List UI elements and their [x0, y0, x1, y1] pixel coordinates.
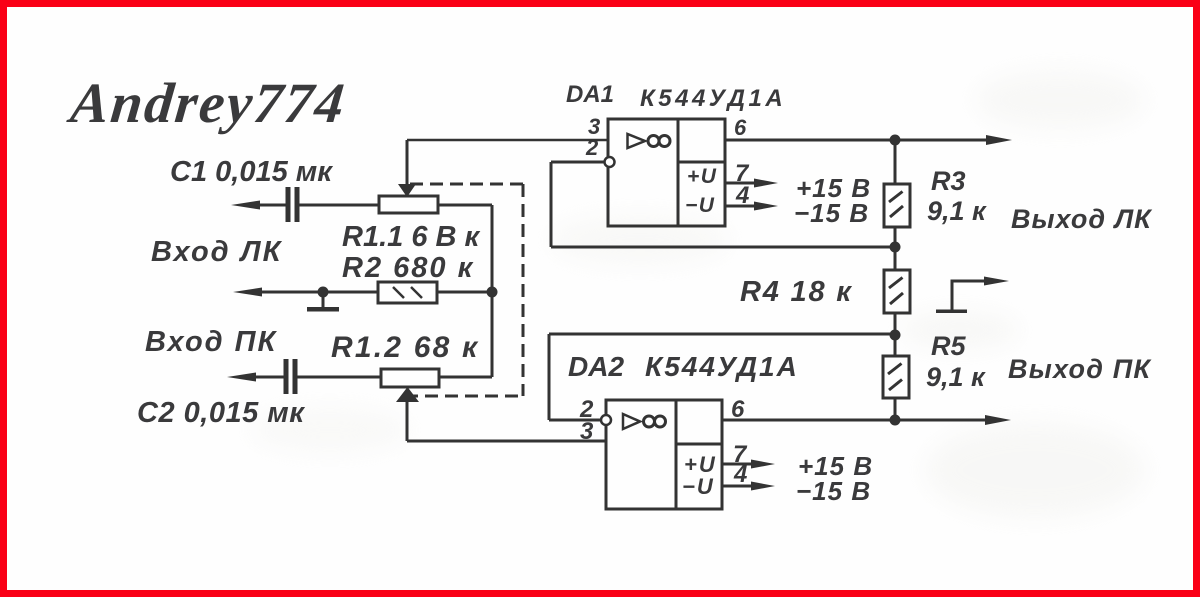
label DA2 — [568, 351, 624, 382]
wire — [258, 291, 378, 294]
wire node to R3 — [894, 140, 897, 184]
label -U (DA1) — [685, 194, 715, 217]
input terminal arrow (C1 line) — [231, 201, 260, 210]
svg-text:R1.1 6 В к: R1.1 6 В к — [342, 221, 480, 253]
label R3 — [931, 166, 966, 196]
svg-text:−15 В: −15 В — [794, 198, 869, 228]
label 9,1к (R5) — [926, 362, 986, 392]
label R1.1 6Вк — [342, 221, 480, 253]
signature Andrey774 — [65, 72, 349, 135]
label -15 V (DA1) — [794, 198, 869, 228]
label К544УД1А (DA1) — [640, 85, 786, 112]
svg-text:9,1 к: 9,1 к — [926, 362, 986, 392]
label +U (DA1) — [687, 165, 717, 188]
svg-text:R1.2 68 к: R1.2 68 к — [331, 331, 479, 364]
label +15 V (DA1) — [796, 173, 871, 203]
wiper arrow of R1.1 — [398, 140, 416, 197]
label Выход ПК — [1008, 354, 1152, 384]
capacitor C2 — [284, 359, 298, 394]
capacitor C1 — [286, 187, 300, 222]
capacitor C1 label — [170, 156, 333, 188]
svg-text:R2 680 к: R2 680 к — [342, 252, 474, 284]
label +U (DA2) — [684, 452, 717, 477]
node feedback DA2 — [890, 330, 901, 341]
label R4 18к — [740, 276, 853, 308]
wire — [439, 376, 492, 379]
label Вход ПК — [145, 326, 278, 358]
wire — [297, 376, 381, 379]
pin 7 label (DA1) — [735, 160, 750, 187]
svg-text:Andrey774: Andrey774 — [65, 72, 349, 135]
svg-text:DA1: DA1 — [566, 81, 614, 108]
svg-text:С2 0,015 мк: С2 0,015 мк — [137, 397, 305, 429]
svg-text:Вход ЛК: Вход ЛК — [151, 236, 283, 268]
wire R5 to output node — [894, 398, 897, 420]
wire — [437, 291, 492, 294]
ground (output common) — [936, 277, 1009, 314]
wire pin4 -U DA2 — [722, 482, 775, 491]
svg-text:С1 0,015 мк: С1 0,015 мк — [170, 156, 333, 188]
ground — [307, 292, 339, 312]
pin 6 label (DA2) — [731, 396, 745, 423]
svg-text:К544УД1А: К544УД1А — [640, 85, 786, 112]
input terminal arrow (LK line) — [233, 288, 262, 297]
wire R4 to node — [894, 313, 897, 356]
wire (right bus of R1.1/R2/R1.2) — [491, 205, 494, 377]
svg-text:R3: R3 — [931, 166, 966, 196]
capacitor C2 label — [137, 397, 305, 429]
label +15 V (DA2) — [798, 451, 873, 481]
mechanical coupling dashed link — [405, 184, 523, 396]
wire pin7 +U DA1 — [725, 179, 778, 188]
wire pin4 -U DA1 — [725, 202, 778, 211]
pin 7 label (DA2) — [733, 441, 748, 468]
svg-text:−U: −U — [685, 194, 715, 217]
svg-text:R5: R5 — [931, 331, 966, 361]
label R1.2 68к — [331, 331, 479, 364]
svg-text:6: 6 — [734, 115, 747, 140]
svg-text:DA2: DA2 — [568, 351, 624, 382]
input terminal arrow (C2 line) — [227, 373, 256, 382]
label Выход ЛК — [1011, 204, 1153, 234]
pin 3 label (DA2) — [580, 418, 594, 445]
svg-text:−U: −U — [682, 474, 715, 499]
op-amp DA1 — [608, 119, 725, 226]
wire pin3 DA1 — [407, 139, 608, 142]
svg-text:Выход ПК: Выход ПК — [1008, 354, 1152, 384]
wire pin3 DA2 — [407, 440, 606, 443]
node (ground tap) — [318, 287, 329, 298]
wire pin2 feedback DA2 — [549, 334, 895, 420]
label R2 680к — [342, 252, 474, 284]
label -15 V (DA2) — [796, 476, 871, 506]
svg-text:К544УД1А: К544УД1А — [645, 351, 799, 382]
pin 2 inverting input circle (DA2) — [601, 415, 611, 425]
pin 2 inverting input circle (DA1) — [605, 157, 615, 167]
label 9,1к (R3) — [927, 196, 987, 226]
svg-text:+U: +U — [687, 165, 717, 188]
potentiometer R1.2 — [381, 369, 439, 387]
resistor R4 — [884, 270, 910, 313]
potentiometer R1.1 — [379, 196, 438, 213]
wire — [299, 204, 379, 207]
node output DA1 — [890, 135, 901, 146]
op-amp DA2 — [606, 400, 722, 509]
resistor R2 — [378, 282, 437, 303]
svg-text:Выход ЛК: Выход ЛК — [1011, 204, 1153, 234]
svg-text:Вход ПК: Вход ПК — [145, 326, 278, 358]
svg-text:−15 В: −15 В — [796, 476, 871, 506]
label R5 — [931, 331, 966, 361]
label -U (DA2) — [682, 474, 715, 499]
wire R3 to node — [894, 227, 897, 270]
resistor R5 — [883, 356, 909, 398]
pin 3 label (DA1) — [588, 114, 600, 139]
pin 2 label (DA1) — [585, 135, 599, 160]
resistor R3 — [884, 184, 910, 227]
wire — [252, 376, 284, 379]
svg-text:R4 18 к: R4 18 к — [740, 276, 853, 308]
wire — [438, 204, 492, 207]
node (R2 right junction) — [487, 287, 498, 298]
wire pin7 +U DA2 — [722, 460, 775, 469]
pin 6 label (DA1) — [734, 115, 747, 140]
wire pin2 feedback DA1 — [551, 162, 895, 247]
pin 2 label (DA2) — [579, 396, 594, 423]
label К544УД1А (DA2) — [645, 351, 799, 382]
wiper arrow of R1.2 — [396, 387, 419, 441]
pin 4 label (DA1) — [735, 182, 749, 209]
label DA1 — [566, 81, 614, 108]
wire pin6 output DA2 — [722, 415, 1011, 425]
node output DA2 — [890, 415, 901, 426]
node feedback DA1 — [890, 242, 901, 253]
wire — [256, 204, 286, 207]
pin 4 label (DA2) — [733, 461, 747, 488]
label Вход ЛК — [151, 236, 283, 268]
wire pin6 output DA1 — [725, 135, 1012, 145]
svg-text:9,1 к: 9,1 к — [927, 196, 987, 226]
